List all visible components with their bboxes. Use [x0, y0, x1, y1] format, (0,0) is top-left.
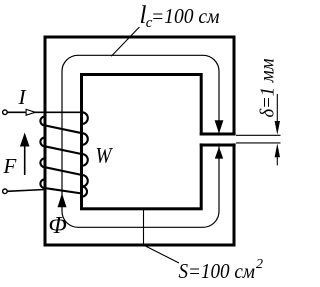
flux arrow up (left leg) labelled Phi	[58, 193, 67, 207]
core window	[82, 75, 202, 209]
flux path centerline (rounded rect)	[62, 55, 219, 227]
coil front wire 2	[45, 146, 82, 154]
core outer boundary	[45, 37, 234, 245]
coil right arc 4	[82, 175, 88, 187]
svg-text:I: I	[18, 85, 27, 109]
svg-text:2: 2	[256, 257, 263, 272]
l_c label leader line	[111, 27, 139, 56]
gap extension line lower	[236, 142, 281, 144]
coil left arc 4	[40, 179, 44, 188]
air gap lower pole face	[200, 144, 236, 147]
svg-text:Φ: Φ	[49, 213, 67, 239]
dimension line upper with down arrow	[275, 94, 280, 135]
top terminal circle	[3, 110, 8, 115]
air gap (white break in right leg)	[198, 136, 239, 144]
dimension line lower with up arrow	[275, 143, 280, 165]
svg-text:W: W	[96, 143, 114, 168]
S label leader line (vertical through bottom yoke + diagonal)	[144, 208, 180, 263]
coil left arc 1	[40, 117, 44, 126]
current direction open arrow	[26, 109, 35, 115]
svg-text:F: F	[3, 154, 17, 178]
flux arrow down (upper right leg)	[215, 120, 224, 133]
F (mmf) up arrow	[20, 133, 30, 176]
gap extension line upper	[236, 134, 281, 136]
coil left arc 2	[40, 138, 44, 147]
bottom terminal circle	[3, 189, 8, 194]
flux arrow up (lower right leg)	[215, 147, 223, 159]
coil left arc 3	[40, 158, 44, 167]
svg-text:S=100 см: S=100 см	[179, 259, 256, 283]
coil right arc 1	[82, 112, 88, 124]
coil right arc 2	[82, 133, 88, 145]
coil right arc 3	[82, 154, 88, 166]
coil front wire 3	[45, 167, 82, 175]
svg-text:=100 см: =100 см	[151, 4, 220, 28]
air gap upper pole face	[200, 133, 236, 136]
svg-text:δ=1 мм: δ=1 мм	[257, 58, 279, 117]
bottom terminal wire	[7, 190, 45, 192]
coil front wire 4 (exit turn)	[45, 188, 82, 193]
coil right arc 5	[82, 187, 87, 197]
coil W : input wire from top terminal	[7, 111, 82, 113]
coil front wire 1	[45, 125, 82, 133]
